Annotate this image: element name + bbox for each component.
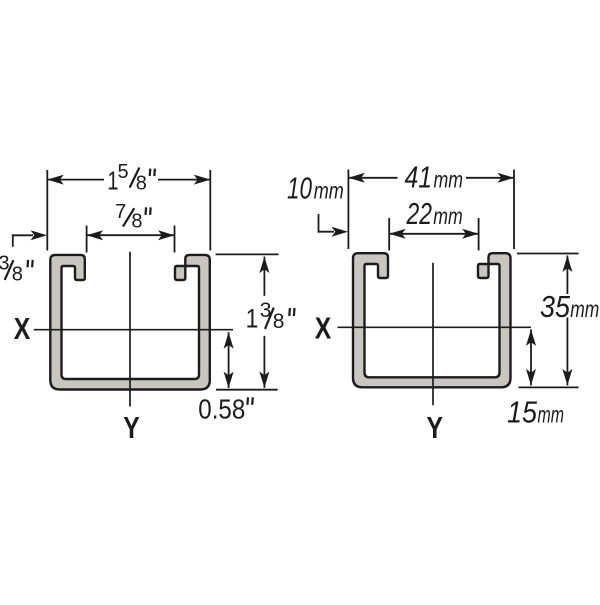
- X axis line (right): [338, 326, 532, 328]
- dim 22mm dimension line + arrows: [389, 233, 478, 235]
- svg-text:Y: Y: [123, 411, 140, 445]
- dim 7/8 inch extension lines: [86, 226, 88, 253]
- dim 1 3/8 inch top extension line: [216, 253, 279, 255]
- Y axis line (left): [129, 252, 131, 407]
- svg-text:5: 5: [118, 161, 129, 183]
- svg-text:10: 10: [287, 171, 312, 206]
- svg-text:8: 8: [12, 263, 23, 285]
- dim 41mm dimension line + arrows: [348, 177, 397, 179]
- Y axis line (right): [432, 263, 434, 406]
- strut channel cross-section (metric): [353, 253, 511, 387]
- svg-text:8: 8: [131, 211, 142, 233]
- dim 0.58 inch dimension line + arrows: [228, 332, 230, 388]
- svg-text:8: 8: [136, 173, 147, 195]
- dim 35mm top extension line: [517, 253, 579, 255]
- svg-text:22: 22: [406, 196, 432, 231]
- svg-text:41: 41: [405, 160, 433, 195]
- svg-text:8: 8: [273, 310, 285, 333]
- svg-text:15: 15: [507, 395, 538, 430]
- bottom extension line (right): [519, 386, 579, 388]
- svg-text:7: 7: [115, 201, 126, 223]
- dim 7/8 inch dimension line + arrows: [87, 234, 175, 236]
- svg-text:mm: mm: [314, 178, 344, 204]
- dim 41mm extension lines: [347, 170, 349, 250]
- svg-text:mm: mm: [538, 402, 565, 428]
- dim 22mm extension lines: [388, 218, 390, 251]
- svg-text:mm: mm: [434, 167, 464, 193]
- dim 1 5/8 inch extension lines: [46, 170, 48, 251]
- svg-text:X: X: [315, 311, 332, 345]
- strut channel cross-section (inch): [50, 255, 210, 390]
- leader 10mm (bent leader with arrow): [318, 214, 320, 233]
- svg-text:Y: Y: [427, 411, 444, 445]
- svg-text:35: 35: [540, 289, 571, 324]
- svg-text:1: 1: [246, 304, 259, 334]
- dim 15mm dimension line + arrows: [530, 329, 532, 385]
- X axis line (left): [34, 329, 233, 331]
- svg-text:X: X: [14, 312, 31, 346]
- dim 1 5/8 inch dimension line + arrows: [47, 179, 104, 181]
- leader 3/8 inch (bent leader with arrow): [12, 234, 14, 246]
- svg-text:mm: mm: [433, 203, 463, 229]
- svg-text:0.58: 0.58: [198, 393, 245, 424]
- svg-text:mm: mm: [570, 296, 599, 322]
- dim 1 3/8 inch dimension line + arrows: [263, 257, 265, 296]
- dim 35mm dimension line + arrows: [566, 256, 568, 295]
- bottom extension line (left): [216, 389, 278, 391]
